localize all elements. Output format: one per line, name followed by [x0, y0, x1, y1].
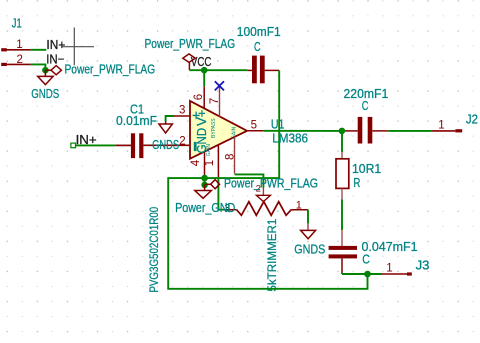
svg-text:2: 2 — [17, 54, 23, 66]
wire between junctions — [204, 178, 206, 185]
svg-text:C: C — [362, 252, 370, 266]
svg-text:C: C — [362, 100, 369, 114]
power flag PWR_FLAG at J1 — [45, 62, 155, 76]
capacitor 100mF1 — [237, 24, 281, 83]
svg-text:10R1: 10R1 — [352, 161, 381, 175]
op-amp inside pin names — [192, 108, 237, 156]
wire junction down to pin 6 — [203, 70, 205, 86]
junction op-amp pin4 — [201, 175, 208, 182]
wire op-amp pin1 down to trimmer pin3 — [218, 178, 223, 209]
junction power flag — [201, 182, 208, 189]
capacitor C1 0.01mF — [116, 102, 190, 159]
svg-text:1: 1 — [296, 199, 302, 211]
svg-text:GAIN: GAIN — [206, 144, 212, 157]
svg-text:7: 7 — [209, 98, 221, 104]
svg-text:1: 1 — [386, 263, 392, 275]
power flag PWR_FLAG under op-amp — [205, 175, 318, 190]
svg-text:6: 6 — [193, 94, 205, 100]
svg-text:5: 5 — [251, 119, 257, 131]
svg-text:0.01mF: 0.01mF — [116, 114, 157, 128]
svg-text:GNDS: GNDS — [152, 139, 179, 153]
svg-text:Power_PWR_FLAG: Power_PWR_FLAG — [145, 37, 236, 51]
junction — [42, 67, 49, 74]
wire 100mF down to long feedback wire — [205, 70, 280, 178]
wire op-amp output — [263, 130, 345, 132]
svg-text:Power_PWR_FLAG: Power_PWR_FLAG — [224, 175, 318, 190]
power VCC — [189, 56, 211, 70]
wire 10R1 to 0.047 cap — [341, 199, 343, 230]
svg-text:GNDS: GNDS — [294, 242, 325, 257]
wire junction down to 10R1 — [341, 131, 343, 152]
wire 0.047 cap to J3 — [342, 273, 382, 275]
svg-text:Power_GND: Power_GND — [175, 200, 235, 215]
svg-text:BYPASS: BYPASS — [211, 118, 217, 138]
svg-text:LM386: LM386 — [272, 131, 308, 146]
svg-text:J2: J2 — [466, 112, 478, 127]
svg-text:GAIN: GAIN — [231, 126, 237, 139]
connector J1 — [1, 17, 30, 66]
no-connect X on pin 7 — [215, 81, 224, 90]
power flag PWR_FLAG at VCC — [145, 37, 236, 62]
op-amp pin 7 — [219, 86, 221, 117]
svg-text:Power_PWR_FLAG: Power_PWR_FLAG — [65, 62, 156, 76]
wire IN+ label to C1 — [76, 144, 116, 146]
junction at J3 — [364, 271, 371, 278]
svg-text:R: R — [353, 177, 360, 191]
svg-text:IN−: IN− — [46, 52, 64, 67]
wire feedback box — [168, 178, 367, 289]
svg-text:PVG3G502C01R00: PVG3G502C01R00 — [148, 207, 161, 293]
svg-text:C: C — [254, 41, 261, 55]
svg-text:0.047mF1: 0.047mF1 — [362, 239, 418, 254]
op-amp pin 5 output — [247, 130, 263, 132]
junction at VCC — [201, 67, 208, 74]
op-amp U1 LM386 body — [190, 101, 247, 159]
op-amp pin 6 — [203, 86, 205, 108]
svg-text:V+: V+ — [194, 110, 209, 126]
wire op-amp pin8 to trimmer wiper — [235, 174, 264, 187]
connector J3 — [382, 258, 429, 276]
trimmer RV1 5kTRIMMER1 zigzag — [223, 184, 308, 292]
op-amp pin 8 — [234, 137, 236, 174]
label IN+ at C1 input with dangling end square — [71, 132, 97, 148]
wire J1 pin1 to IN+ label — [31, 49, 47, 51]
connector J2 — [431, 112, 478, 132]
svg-text:1: 1 — [438, 119, 444, 131]
ground GNDS at trimmer — [294, 223, 325, 257]
svg-text:1: 1 — [204, 160, 216, 166]
ground GNDS at J1 — [31, 70, 59, 101]
wire J1 pin2 to junction — [31, 64, 46, 70]
resistor 10R1 — [336, 152, 381, 199]
svg-text:5kTRIMMER1: 5kTRIMMER1 — [264, 218, 278, 291]
svg-text:4: 4 — [190, 159, 202, 166]
svg-text:J1: J1 — [12, 17, 22, 31]
cursor crosshair — [61, 28, 94, 66]
junction at output — [339, 128, 346, 135]
svg-text:1: 1 — [16, 39, 22, 51]
svg-text:2: 2 — [179, 136, 185, 148]
svg-text:3: 3 — [179, 104, 185, 116]
wire trimmer pin1 to GNDS — [307, 210, 309, 224]
power ground Power_GND — [175, 185, 235, 215]
svg-text:U1: U1 — [271, 116, 285, 131]
svg-text:J3: J3 — [416, 258, 430, 273]
wire VCC to junction and 100mF — [189, 69, 247, 71]
wire 220mF to J2 — [388, 130, 431, 132]
svg-text:GNDS: GNDS — [31, 88, 59, 102]
op-amp pin 3 — [174, 115, 190, 117]
capacitor 0.047mF1 — [329, 230, 418, 274]
op-amp pin 1 — [217, 145, 219, 179]
ground GNDS at op-amp pin3 — [152, 116, 179, 152]
svg-text:IN+: IN+ — [46, 38, 65, 53]
capacitor 220mF1 — [344, 87, 389, 144]
svg-text:100mF1: 100mF1 — [237, 24, 281, 39]
op-amp pin 4 — [204, 152, 206, 178]
svg-text:8: 8 — [224, 154, 236, 160]
